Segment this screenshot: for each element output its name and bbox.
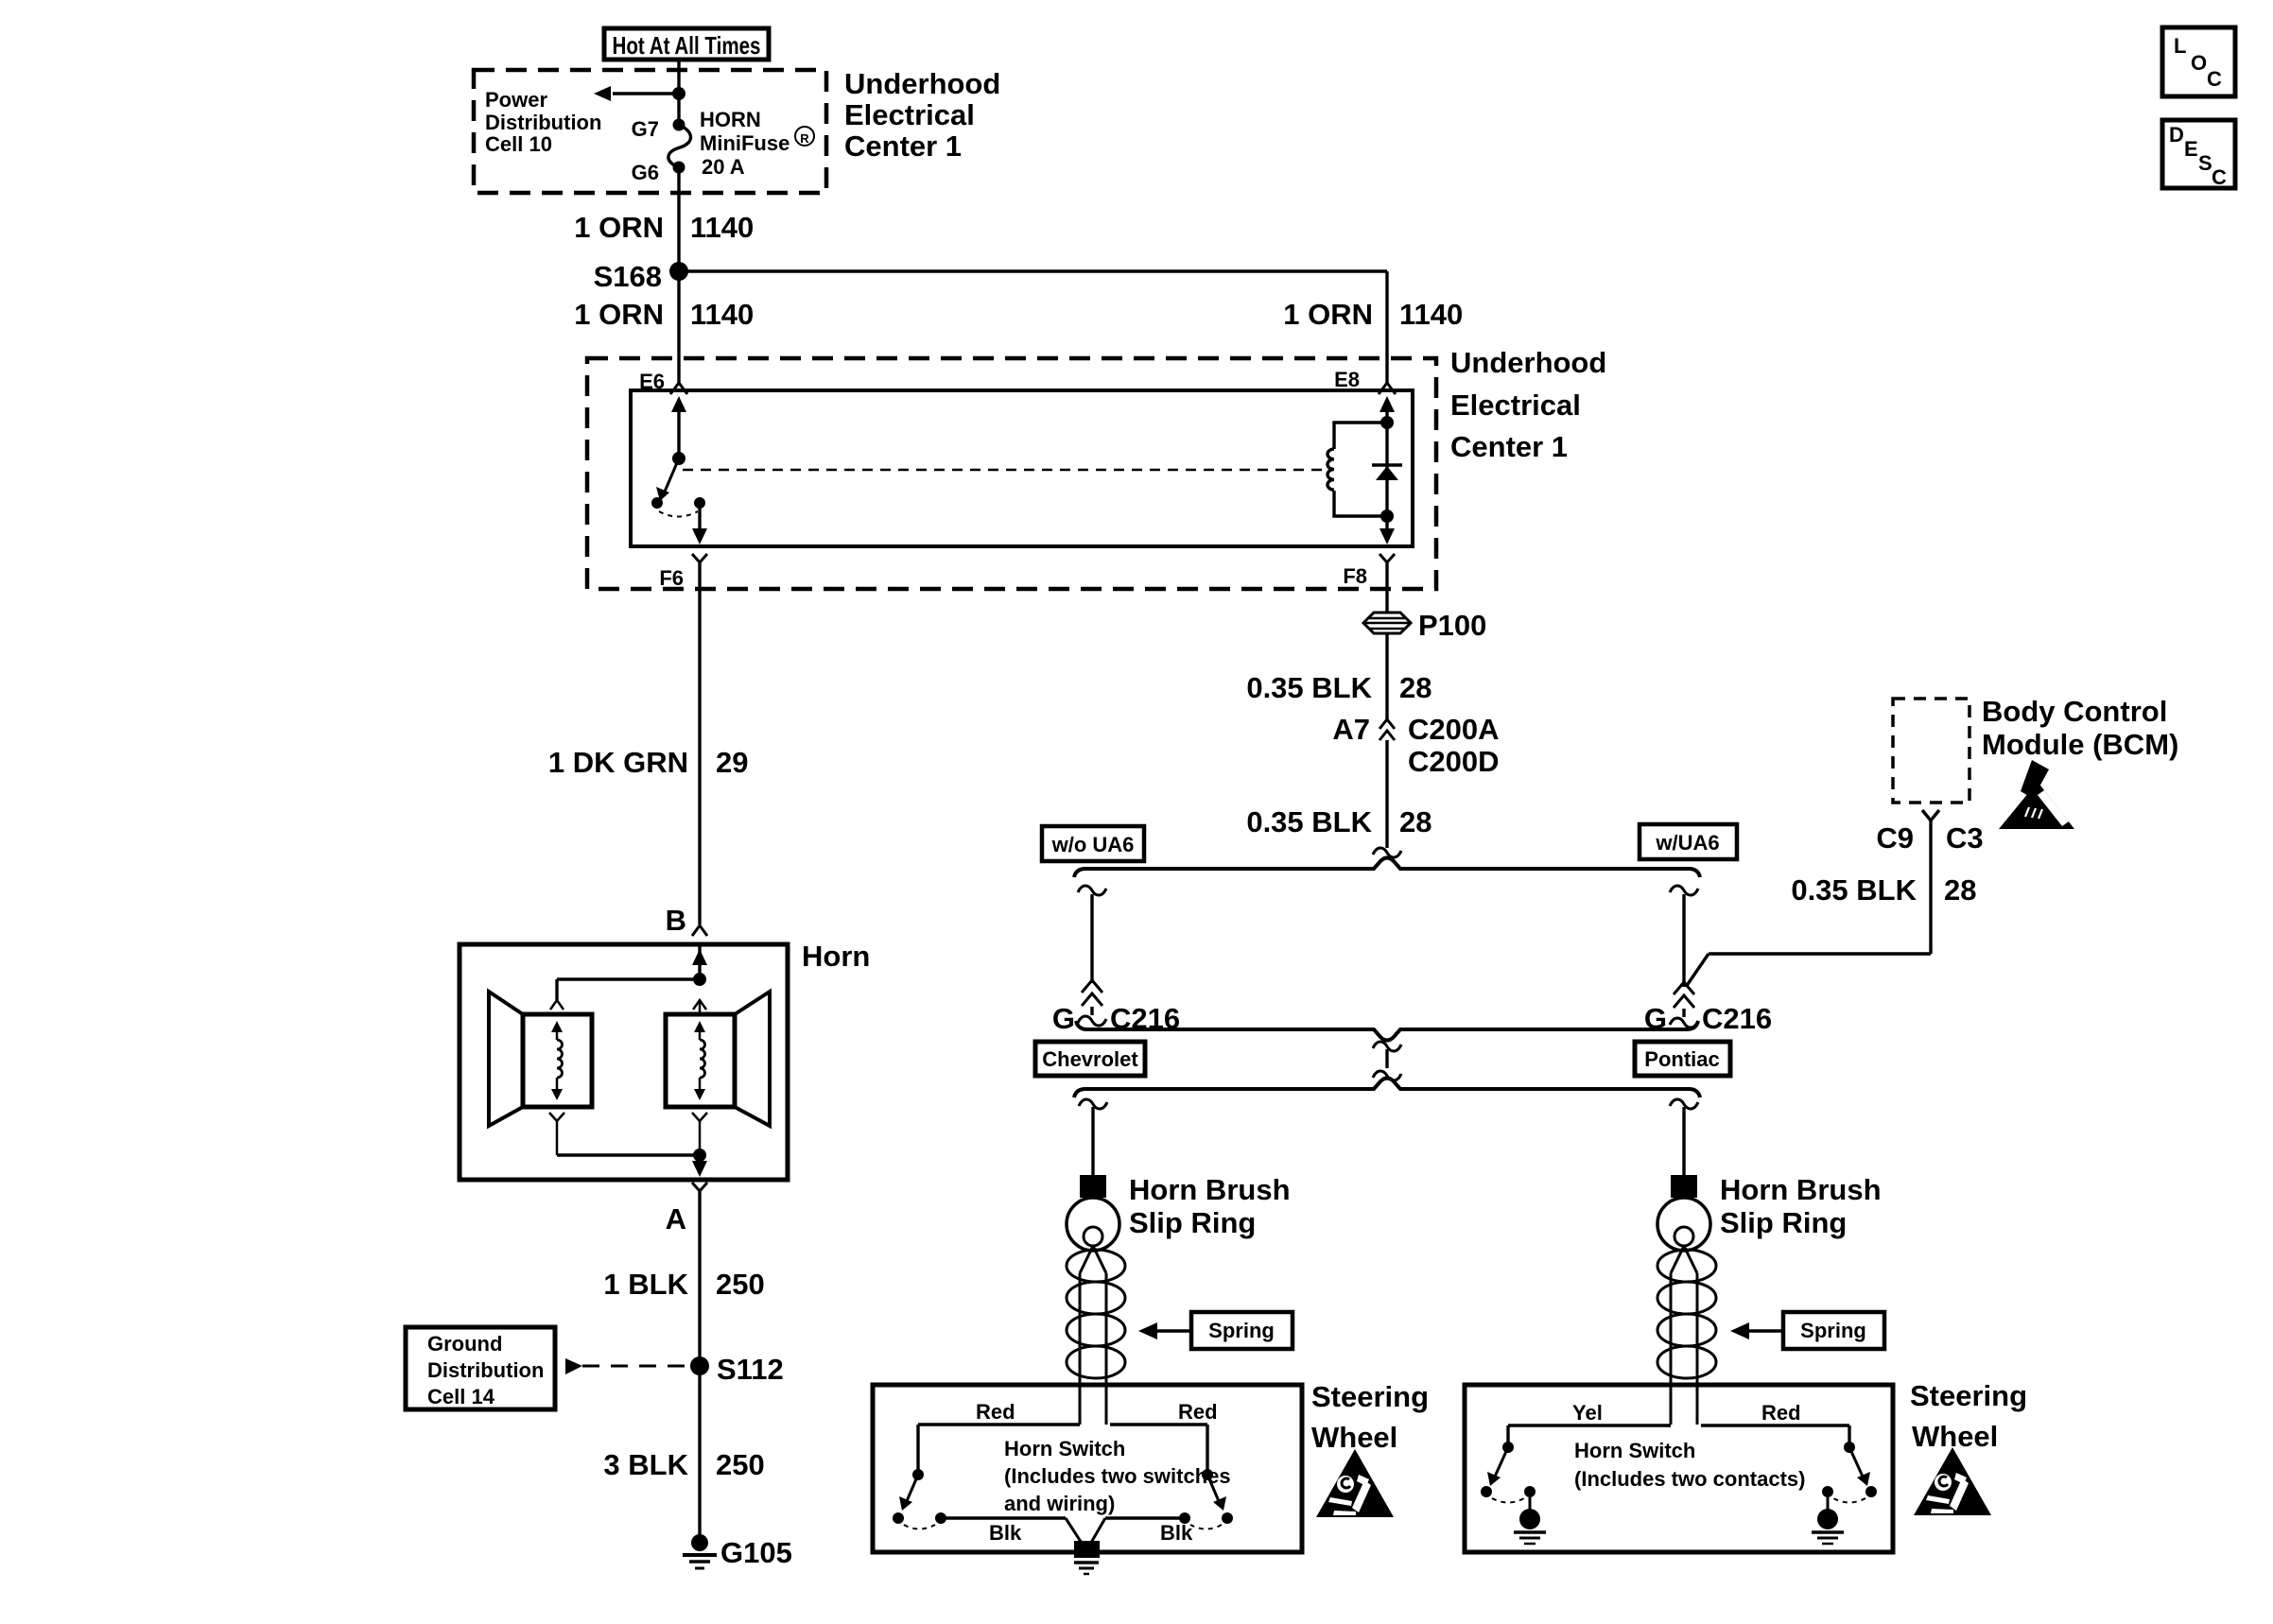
svg-text:MiniFuse: MiniFuse bbox=[700, 131, 789, 155]
svg-text:Cell 10: Cell 10 bbox=[485, 132, 552, 156]
svg-text:Red: Red bbox=[976, 1400, 1015, 1424]
svg-text:E: E bbox=[2184, 137, 2198, 161]
svg-text:3 BLK: 3 BLK bbox=[603, 1448, 688, 1481]
svg-text:Spring: Spring bbox=[1208, 1319, 1275, 1342]
svg-text:Body Control: Body Control bbox=[1982, 695, 2167, 728]
svg-text:w/UA6: w/UA6 bbox=[1655, 831, 1719, 855]
svg-text:20 A: 20 A bbox=[702, 155, 745, 179]
svg-text:250: 250 bbox=[716, 1268, 765, 1301]
svg-text:Slip Ring: Slip Ring bbox=[1129, 1206, 1256, 1239]
svg-text:Pontiac: Pontiac bbox=[1644, 1047, 1719, 1071]
svg-text:0.35 BLK: 0.35 BLK bbox=[1791, 873, 1917, 907]
svg-text:Red: Red bbox=[1761, 1401, 1801, 1425]
svg-text:250: 250 bbox=[716, 1448, 765, 1481]
svg-text:S: S bbox=[2198, 151, 2212, 175]
svg-text:Chevrolet: Chevrolet bbox=[1042, 1047, 1138, 1071]
svg-text:G: G bbox=[1052, 1002, 1075, 1035]
svg-text:Steering: Steering bbox=[1910, 1379, 2027, 1412]
svg-text:Horn Switch: Horn Switch bbox=[1574, 1439, 1695, 1462]
svg-text:B: B bbox=[666, 904, 686, 937]
svg-text:Center 1: Center 1 bbox=[1450, 430, 1568, 463]
svg-text:G7: G7 bbox=[632, 117, 659, 141]
svg-text:Distribution: Distribution bbox=[485, 111, 601, 134]
svg-text:C216: C216 bbox=[1702, 1002, 1772, 1035]
svg-text:Horn Brush: Horn Brush bbox=[1129, 1173, 1291, 1206]
svg-text:G105: G105 bbox=[720, 1536, 792, 1569]
svg-text:Yel: Yel bbox=[1572, 1401, 1603, 1425]
svg-text:Blk: Blk bbox=[1160, 1521, 1193, 1545]
svg-text:Module (BCM): Module (BCM) bbox=[1982, 728, 2178, 761]
svg-text:Underhood: Underhood bbox=[844, 67, 1000, 100]
svg-text:Wheel: Wheel bbox=[1912, 1420, 1998, 1453]
svg-text:Ground: Ground bbox=[427, 1332, 502, 1356]
svg-text:0.35 BLK: 0.35 BLK bbox=[1246, 671, 1372, 704]
svg-text:Blk: Blk bbox=[989, 1521, 1022, 1545]
svg-text:Center 1: Center 1 bbox=[844, 130, 962, 163]
svg-text:Cell 14: Cell 14 bbox=[427, 1385, 495, 1408]
svg-text:Distribution: Distribution bbox=[427, 1358, 544, 1382]
svg-text:1140: 1140 bbox=[1399, 298, 1463, 331]
svg-text:Wheel: Wheel bbox=[1311, 1421, 1397, 1454]
svg-text:28: 28 bbox=[1399, 671, 1431, 704]
svg-text:1140: 1140 bbox=[690, 298, 754, 331]
svg-text:C: C bbox=[2212, 165, 2227, 189]
svg-text:C200D: C200D bbox=[1408, 745, 1500, 778]
svg-text:HORN: HORN bbox=[700, 108, 761, 131]
svg-text:w/o UA6: w/o UA6 bbox=[1051, 833, 1135, 856]
svg-text:Spring: Spring bbox=[1800, 1319, 1866, 1342]
svg-text:D: D bbox=[2169, 123, 2184, 147]
svg-text:28: 28 bbox=[1399, 805, 1431, 838]
svg-text:Slip Ring: Slip Ring bbox=[1720, 1206, 1847, 1239]
svg-text:S168: S168 bbox=[594, 260, 662, 293]
svg-text:A7: A7 bbox=[1332, 713, 1370, 746]
svg-text:1 DK GRN: 1 DK GRN bbox=[548, 746, 688, 779]
svg-text:C200A: C200A bbox=[1408, 713, 1500, 746]
svg-text:Horn: Horn bbox=[802, 940, 870, 973]
svg-text:O: O bbox=[2191, 51, 2207, 75]
svg-text:Underhood: Underhood bbox=[1450, 346, 1606, 379]
svg-text:F8: F8 bbox=[1343, 564, 1367, 588]
svg-text:1140: 1140 bbox=[690, 211, 754, 244]
svg-text:C: C bbox=[2207, 67, 2222, 91]
svg-text:Red: Red bbox=[1178, 1400, 1218, 1424]
svg-text:(Includes two contacts): (Includes two contacts) bbox=[1574, 1467, 1805, 1491]
svg-text:1 ORN: 1 ORN bbox=[574, 298, 664, 331]
svg-text:Power: Power bbox=[485, 88, 547, 112]
svg-text:C3: C3 bbox=[1946, 821, 1984, 855]
svg-text:Electrical: Electrical bbox=[844, 98, 975, 131]
svg-text:E8: E8 bbox=[1334, 368, 1360, 391]
svg-text:(Includes two switches: (Includes two switches bbox=[1004, 1464, 1231, 1488]
svg-text:28: 28 bbox=[1944, 873, 1976, 907]
svg-text:and wiring): and wiring) bbox=[1004, 1492, 1115, 1515]
svg-text:Electrical: Electrical bbox=[1450, 389, 1581, 422]
svg-text:R: R bbox=[800, 131, 809, 146]
svg-text:1 ORN: 1 ORN bbox=[574, 211, 664, 244]
svg-text:A: A bbox=[666, 1202, 686, 1235]
svg-text:C9: C9 bbox=[1876, 821, 1914, 855]
svg-text:1 BLK: 1 BLK bbox=[603, 1268, 688, 1301]
svg-text:1 ORN: 1 ORN bbox=[1283, 298, 1373, 331]
svg-text:P100: P100 bbox=[1418, 609, 1486, 642]
svg-text:0.35 BLK: 0.35 BLK bbox=[1246, 805, 1372, 838]
svg-text:Steering: Steering bbox=[1311, 1380, 1429, 1413]
svg-text:29: 29 bbox=[716, 746, 748, 779]
svg-text:S112: S112 bbox=[717, 1353, 784, 1386]
svg-text:F6: F6 bbox=[659, 566, 684, 590]
svg-text:Horn Switch: Horn Switch bbox=[1004, 1437, 1125, 1460]
svg-text:Hot At All Times: Hot At All Times bbox=[613, 31, 761, 60]
svg-text:G6: G6 bbox=[632, 161, 659, 184]
svg-text:Horn Brush: Horn Brush bbox=[1720, 1173, 1882, 1206]
svg-text:L: L bbox=[2174, 34, 2186, 58]
